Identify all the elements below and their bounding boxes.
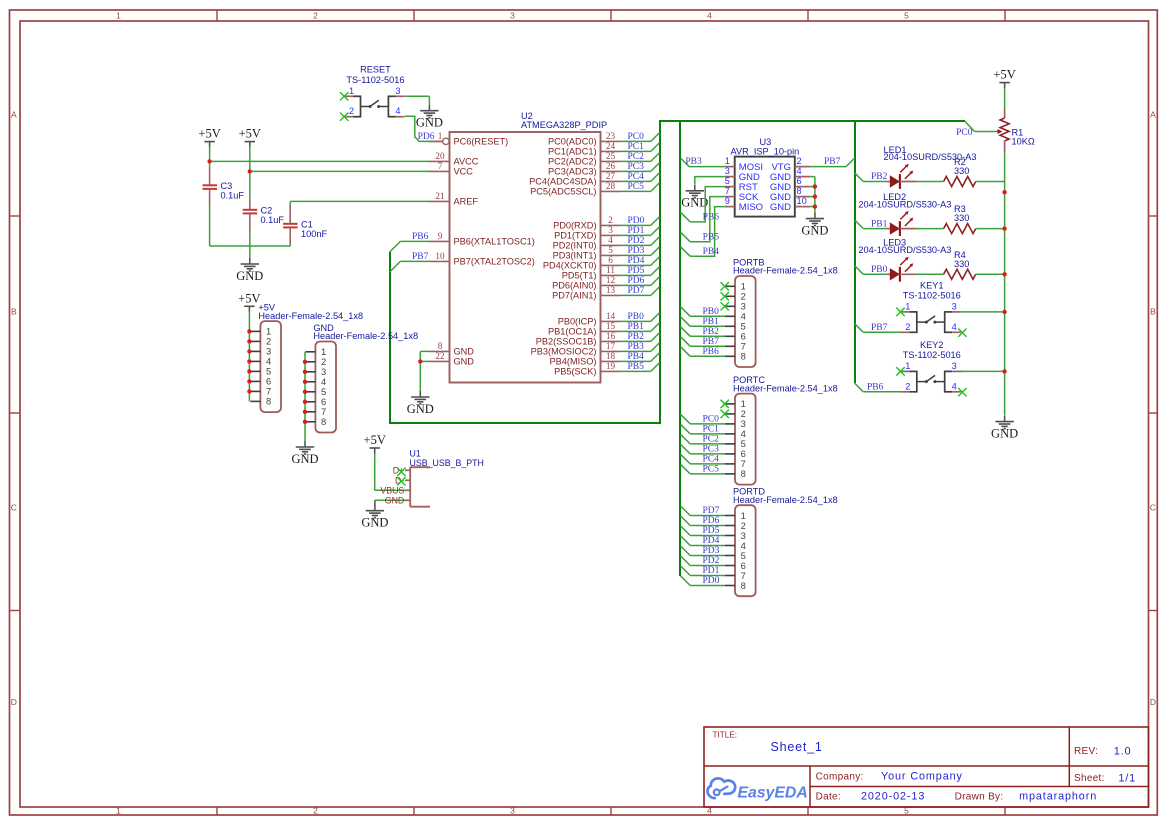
svg-text:GND: GND [291, 452, 318, 466]
svg-text:7: 7 [438, 161, 443, 171]
svg-text:PD6: PD6 [628, 276, 645, 286]
svg-text:VCC: VCC [454, 167, 474, 177]
svg-text:5: 5 [608, 245, 613, 255]
svg-text:2: 2 [313, 11, 318, 21]
svg-text:U1: U1 [410, 449, 421, 459]
svg-text:1: 1 [116, 11, 121, 21]
svg-text:PD0(RXD): PD0(RXD) [553, 221, 596, 231]
svg-text:1/1: 1/1 [1118, 772, 1136, 784]
svg-text:8: 8 [266, 396, 271, 407]
svg-text:8: 8 [741, 580, 746, 591]
svg-text:5: 5 [725, 176, 730, 186]
svg-text:PB1: PB1 [871, 219, 888, 229]
svg-text:Date:: Date: [816, 791, 841, 802]
svg-text:PD2: PD2 [628, 236, 645, 246]
svg-text:10: 10 [797, 196, 807, 206]
svg-text:8: 8 [797, 186, 802, 196]
svg-text:0.1uF: 0.1uF [221, 191, 245, 201]
svg-text:C3: C3 [221, 181, 233, 191]
svg-text:10: 10 [435, 251, 445, 261]
svg-text:GND: GND [991, 426, 1018, 440]
svg-text:4: 4 [952, 381, 957, 391]
svg-text:6: 6 [797, 176, 802, 186]
svg-text:330: 330 [954, 166, 969, 176]
svg-text:PB0: PB0 [703, 307, 720, 317]
svg-text:TS-1102-5016: TS-1102-5016 [903, 291, 961, 301]
svg-text:PB3: PB3 [685, 157, 702, 167]
svg-text:4: 4 [797, 166, 802, 176]
svg-text:PD5: PD5 [628, 266, 645, 276]
svg-text:PD1(TXD): PD1(TXD) [554, 231, 596, 241]
svg-text:18: 18 [606, 351, 616, 361]
svg-text:100nF: 100nF [301, 229, 327, 239]
svg-text:16: 16 [606, 331, 616, 341]
svg-text:Sheet:: Sheet: [1074, 773, 1105, 784]
svg-text:PB0: PB0 [628, 312, 645, 322]
svg-text:TITLE:: TITLE: [713, 731, 738, 740]
svg-text:PB5: PB5 [628, 362, 645, 372]
svg-text:19: 19 [606, 361, 616, 371]
svg-text:4: 4 [952, 322, 957, 332]
svg-text:PC2: PC2 [703, 435, 720, 445]
svg-text:GND: GND [454, 357, 475, 367]
svg-text:6: 6 [608, 255, 613, 265]
svg-text:C1: C1 [301, 219, 313, 229]
svg-text:+5V: +5V [993, 68, 1015, 82]
svg-text:1: 1 [905, 361, 910, 371]
svg-text:VBUS: VBUS [380, 485, 404, 495]
svg-text:PB7: PB7 [871, 323, 888, 333]
svg-text:PB4: PB4 [703, 247, 720, 257]
svg-text:1.0: 1.0 [1114, 745, 1132, 757]
svg-text:PC1(ADC1): PC1(ADC1) [548, 147, 597, 157]
svg-text:PD5: PD5 [703, 526, 720, 536]
svg-text:23: 23 [606, 131, 616, 141]
svg-text:PB2: PB2 [628, 332, 645, 342]
svg-text:13: 13 [606, 285, 616, 295]
svg-text:Header-Female-2.54_1x8: Header-Female-2.54_1x8 [258, 311, 363, 321]
svg-text:330: 330 [954, 259, 969, 269]
svg-text:Drawn By:: Drawn By: [955, 791, 1004, 802]
svg-text:PC4: PC4 [628, 172, 645, 182]
svg-text:PB7: PB7 [703, 337, 720, 347]
svg-text:PC5: PC5 [703, 465, 720, 475]
svg-text:B: B [11, 307, 17, 317]
svg-text:PD2: PD2 [703, 556, 720, 566]
svg-text:PD1: PD1 [703, 566, 720, 576]
svg-text:PC0: PC0 [628, 132, 645, 142]
svg-text:A: A [1150, 110, 1156, 120]
svg-text:C: C [1150, 503, 1156, 513]
svg-text:GND: GND [681, 196, 708, 210]
svg-text:PB6: PB6 [867, 383, 884, 393]
svg-text:Company:: Company: [816, 771, 864, 782]
svg-text:PD7: PD7 [628, 286, 645, 296]
svg-text:12: 12 [606, 275, 616, 285]
svg-text:21: 21 [435, 191, 445, 201]
svg-text:8: 8 [741, 468, 746, 479]
svg-text:PC3: PC3 [703, 445, 720, 455]
svg-text:REV:: REV: [1074, 746, 1098, 757]
svg-text:PC5: PC5 [628, 182, 645, 192]
svg-text:PB2(SSOC1B): PB2(SSOC1B) [536, 337, 597, 347]
svg-text:27: 27 [606, 171, 616, 181]
svg-text:PC5(ADC5SCL): PC5(ADC5SCL) [530, 187, 596, 197]
svg-text:2: 2 [313, 806, 318, 816]
svg-text:GND: GND [801, 223, 828, 237]
svg-text:PD0: PD0 [703, 576, 720, 586]
svg-text:PB2: PB2 [871, 172, 888, 182]
svg-text:GND: GND [385, 495, 405, 505]
svg-text:1: 1 [349, 86, 354, 96]
svg-text:3: 3 [608, 225, 613, 235]
svg-text:PD4: PD4 [703, 536, 720, 546]
svg-text:Header-Female-2.54_1x8: Header-Female-2.54_1x8 [733, 495, 838, 505]
svg-text:PD3: PD3 [703, 546, 720, 556]
svg-text:15: 15 [606, 321, 616, 331]
svg-text:GND: GND [236, 269, 263, 283]
svg-text:Header-Female-2.54_1x8: Header-Female-2.54_1x8 [733, 266, 838, 276]
svg-text:204-10SURD/S530-A3: 204-10SURD/S530-A3 [858, 199, 951, 209]
svg-text:PB1: PB1 [628, 322, 645, 332]
svg-text:25: 25 [606, 151, 616, 161]
svg-text:2: 2 [905, 322, 910, 332]
svg-text:PD7: PD7 [703, 506, 720, 516]
svg-text:2020-02-13: 2020-02-13 [861, 791, 925, 803]
svg-text:4: 4 [608, 235, 613, 245]
svg-text:PD4: PD4 [628, 256, 645, 266]
svg-text:PB5: PB5 [703, 233, 720, 243]
svg-text:5: 5 [904, 11, 909, 21]
svg-text:28: 28 [606, 181, 616, 191]
svg-text:1: 1 [116, 806, 121, 816]
svg-text:PB5(SCK): PB5(SCK) [554, 367, 596, 377]
svg-text:9: 9 [438, 231, 443, 241]
svg-text:3: 3 [952, 301, 957, 311]
svg-text:3: 3 [510, 11, 515, 21]
svg-text:PC4(ADC4SDA): PC4(ADC4SDA) [529, 177, 596, 187]
svg-text:C2: C2 [261, 205, 273, 215]
svg-text:14: 14 [606, 311, 616, 321]
svg-text:TS-1102-5016: TS-1102-5016 [903, 350, 961, 360]
svg-text:PD4(XCKT0): PD4(XCKT0) [543, 261, 597, 271]
svg-text:PD2(INT0): PD2(INT0) [553, 241, 597, 251]
svg-text:GND: GND [416, 116, 443, 130]
svg-text:PB0(ICP): PB0(ICP) [558, 317, 597, 327]
svg-text:7: 7 [725, 186, 730, 196]
svg-text:PB6(XTAL1TOSC1): PB6(XTAL1TOSC1) [454, 237, 535, 247]
svg-text:PC0: PC0 [956, 128, 973, 138]
svg-text:Header-Female-2.54_1x8: Header-Female-2.54_1x8 [733, 383, 838, 393]
svg-text:PC3(ADC3): PC3(ADC3) [548, 167, 597, 177]
svg-text:PB0: PB0 [871, 265, 888, 275]
svg-text:PB4: PB4 [628, 352, 645, 362]
svg-text:4: 4 [707, 11, 712, 21]
svg-text:PB3: PB3 [628, 342, 645, 352]
svg-text:PB6: PB6 [703, 213, 720, 223]
svg-text:PC2(ADC2): PC2(ADC2) [548, 157, 597, 167]
svg-text:KEY2: KEY2 [920, 340, 944, 350]
svg-text:Header-Female-2.54_1x8: Header-Female-2.54_1x8 [313, 331, 418, 341]
svg-text:2: 2 [608, 215, 613, 225]
svg-text:PD5(T1): PD5(T1) [562, 271, 597, 281]
svg-text:1: 1 [725, 156, 730, 166]
svg-text:A: A [11, 110, 17, 120]
svg-text:3: 3 [725, 166, 730, 176]
svg-text:RESET: RESET [360, 65, 391, 75]
svg-text:EasyEDA: EasyEDA [738, 785, 808, 802]
svg-text:GND: GND [407, 402, 434, 416]
svg-text:PB6: PB6 [412, 232, 429, 242]
svg-text:B: B [1150, 307, 1156, 317]
svg-text:+5V: +5V [364, 433, 386, 447]
svg-text:11: 11 [606, 265, 615, 275]
svg-text:U3: U3 [760, 137, 772, 147]
svg-text:PC2: PC2 [628, 152, 645, 162]
svg-text:PB7: PB7 [824, 157, 841, 167]
svg-text:+5V: +5V [238, 291, 260, 305]
svg-text:PD3: PD3 [628, 246, 645, 256]
svg-text:PD1: PD1 [628, 226, 645, 236]
svg-text:4: 4 [395, 106, 400, 116]
svg-text:9: 9 [725, 196, 730, 206]
svg-text:PC6(RESET): PC6(RESET) [454, 137, 509, 147]
svg-text:PC1: PC1 [628, 142, 645, 152]
svg-text:GND: GND [454, 347, 475, 357]
svg-text:AVCC: AVCC [454, 157, 479, 167]
svg-text:8: 8 [741, 351, 746, 362]
svg-text:GND: GND [361, 516, 388, 530]
svg-text:AVR_ISP_10-pin: AVR_ISP_10-pin [731, 147, 800, 157]
svg-text:+5V: +5V [198, 127, 220, 141]
svg-text:10KΩ: 10KΩ [1012, 136, 1035, 146]
svg-text:2: 2 [905, 381, 910, 391]
svg-text:2: 2 [797, 156, 802, 166]
svg-text:Your Company: Your Company [881, 771, 963, 783]
svg-text:PD0: PD0 [628, 216, 645, 226]
svg-text:1: 1 [438, 131, 443, 141]
svg-text:1: 1 [905, 301, 910, 311]
svg-text:8: 8 [438, 341, 443, 351]
svg-text:17: 17 [606, 341, 616, 351]
svg-text:PB1(OC1A): PB1(OC1A) [548, 327, 597, 337]
svg-text:PB2: PB2 [703, 327, 720, 337]
svg-text:PC0(ADC0): PC0(ADC0) [548, 137, 597, 147]
svg-text:PC3: PC3 [628, 162, 645, 172]
svg-text:PB4(MISO): PB4(MISO) [550, 357, 597, 367]
svg-text:3: 3 [395, 86, 400, 96]
svg-text:PC0: PC0 [703, 415, 720, 425]
svg-text:PB1: PB1 [703, 317, 720, 327]
svg-text:20: 20 [435, 151, 445, 161]
svg-text:PD6: PD6 [703, 516, 720, 526]
svg-text:AREF: AREF [454, 197, 479, 207]
svg-text:8: 8 [321, 416, 326, 427]
svg-text:Sheet_1: Sheet_1 [771, 740, 823, 754]
svg-text:22: 22 [435, 351, 445, 361]
svg-text:PD6(AIN0): PD6(AIN0) [552, 281, 596, 291]
svg-text:2: 2 [349, 106, 354, 116]
svg-text:0.1uF: 0.1uF [261, 215, 285, 225]
svg-text:PC1: PC1 [703, 425, 720, 435]
svg-text:D: D [1150, 697, 1156, 707]
svg-text:PD3(INT1): PD3(INT1) [553, 251, 597, 261]
svg-text:330: 330 [954, 213, 969, 223]
svg-text:ATMEGA328P_PDIP: ATMEGA328P_PDIP [521, 120, 607, 130]
svg-text:mpataraphorn: mpataraphorn [1019, 791, 1097, 803]
svg-text:D: D [11, 697, 17, 707]
svg-text:24: 24 [606, 141, 616, 151]
svg-text:3: 3 [510, 806, 515, 816]
svg-text:+5V: +5V [239, 127, 261, 141]
svg-text:PB7: PB7 [412, 252, 429, 262]
svg-text:204-10SURD/S530-A3: 204-10SURD/S530-A3 [858, 245, 951, 255]
svg-text:26: 26 [606, 161, 616, 171]
svg-text:GND: GND [770, 202, 791, 213]
svg-text:C: C [11, 503, 17, 513]
svg-text:PB3(MOSIOC2): PB3(MOSIOC2) [531, 347, 597, 357]
svg-text:KEY1: KEY1 [920, 280, 944, 290]
svg-text:PD7(AIN1): PD7(AIN1) [552, 291, 596, 301]
svg-text:PB6: PB6 [703, 347, 720, 357]
svg-text:PD6: PD6 [418, 132, 435, 142]
svg-text:MISO: MISO [739, 202, 763, 213]
svg-text:TS-1102-5016: TS-1102-5016 [346, 75, 404, 85]
svg-text:PB7(XTAL2TOSC2): PB7(XTAL2TOSC2) [454, 257, 535, 267]
svg-text:PC4: PC4 [703, 455, 720, 465]
svg-text:3: 3 [952, 361, 957, 371]
